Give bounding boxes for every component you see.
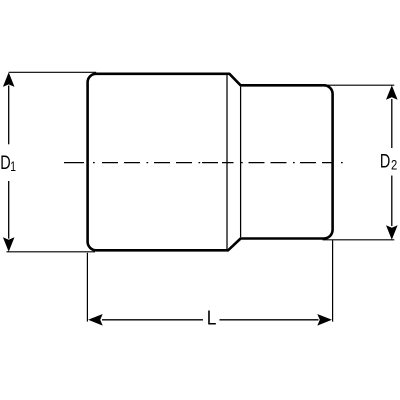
svg-text:1: 1 xyxy=(10,159,16,175)
svg-text:L: L xyxy=(207,306,217,328)
svg-text:D: D xyxy=(380,151,390,172)
svg-text:2: 2 xyxy=(391,158,397,173)
svg-text:D: D xyxy=(0,152,10,173)
